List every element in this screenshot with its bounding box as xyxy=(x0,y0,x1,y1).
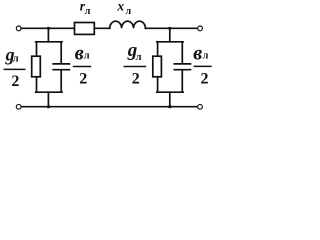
terminal bottom-right xyxy=(198,104,203,109)
wire left shunt drop xyxy=(47,28,49,42)
wire left bottom bar xyxy=(36,91,62,93)
label r_l xyxy=(80,0,91,17)
wire left top bar xyxy=(36,41,62,43)
svg-text:2: 2 xyxy=(201,70,209,87)
svg-text:л: л xyxy=(126,6,132,17)
label b_l/2 right xyxy=(193,42,212,87)
svg-text:в: в xyxy=(193,42,202,64)
label x_l xyxy=(116,0,131,17)
capacitor C (b_l/2 right) top plate xyxy=(174,63,190,65)
wire right top bar xyxy=(157,41,183,43)
wire left cap branch bottom xyxy=(60,71,62,93)
wire left cap branch top xyxy=(60,42,62,63)
node junction top-left xyxy=(47,27,50,30)
resistor box g_l/2 right xyxy=(153,56,162,77)
wire top-left xyxy=(21,27,74,29)
svg-text:2: 2 xyxy=(11,73,19,90)
node junction bottom-right xyxy=(168,105,171,108)
wire coil to top-right terminal xyxy=(145,27,197,29)
wire right cap branch top xyxy=(181,42,183,63)
wire right shunt drop xyxy=(169,28,171,42)
inductor L (x_l) xyxy=(110,21,146,28)
terminal top-right xyxy=(198,26,203,31)
wire right box branch bottom xyxy=(157,77,159,92)
wire right bottom bar xyxy=(157,91,183,93)
svg-text:x: x xyxy=(116,0,124,13)
svg-text:л: л xyxy=(136,52,142,63)
wire left box branch bottom xyxy=(36,77,38,92)
label b_l/2 left xyxy=(73,42,91,87)
terminal bottom-left xyxy=(16,104,21,109)
resistor box g_l/2 left xyxy=(32,56,41,77)
wire right cap branch bottom xyxy=(181,71,183,93)
terminal top-left xyxy=(16,26,21,31)
capacitor C (b_l/2 left) top plate xyxy=(53,63,69,65)
label g_l/2 right xyxy=(124,40,147,87)
wire left box branch top xyxy=(36,42,38,56)
svg-text:л: л xyxy=(13,54,19,65)
node junction top-right xyxy=(168,27,171,30)
svg-text:л: л xyxy=(84,51,90,62)
node junction bottom-left xyxy=(47,105,50,108)
capacitor C (b_l/2 left) bottom plate xyxy=(53,69,69,71)
svg-text:л: л xyxy=(85,6,91,17)
svg-text:2: 2 xyxy=(79,70,87,87)
wire bottom rail xyxy=(21,106,197,108)
svg-text:л: л xyxy=(203,51,209,62)
svg-text:в: в xyxy=(75,42,84,64)
label g_l/2 left xyxy=(4,44,26,90)
wire resistor to coil xyxy=(94,27,109,29)
svg-text:2: 2 xyxy=(132,70,140,87)
capacitor C (b_l/2 right) bottom plate xyxy=(174,69,190,71)
wire right box branch top xyxy=(157,42,159,56)
resistor R (r_l) xyxy=(75,23,95,35)
wire right shunt to bottom rail xyxy=(169,92,171,107)
wire left shunt to bottom rail xyxy=(47,92,49,107)
